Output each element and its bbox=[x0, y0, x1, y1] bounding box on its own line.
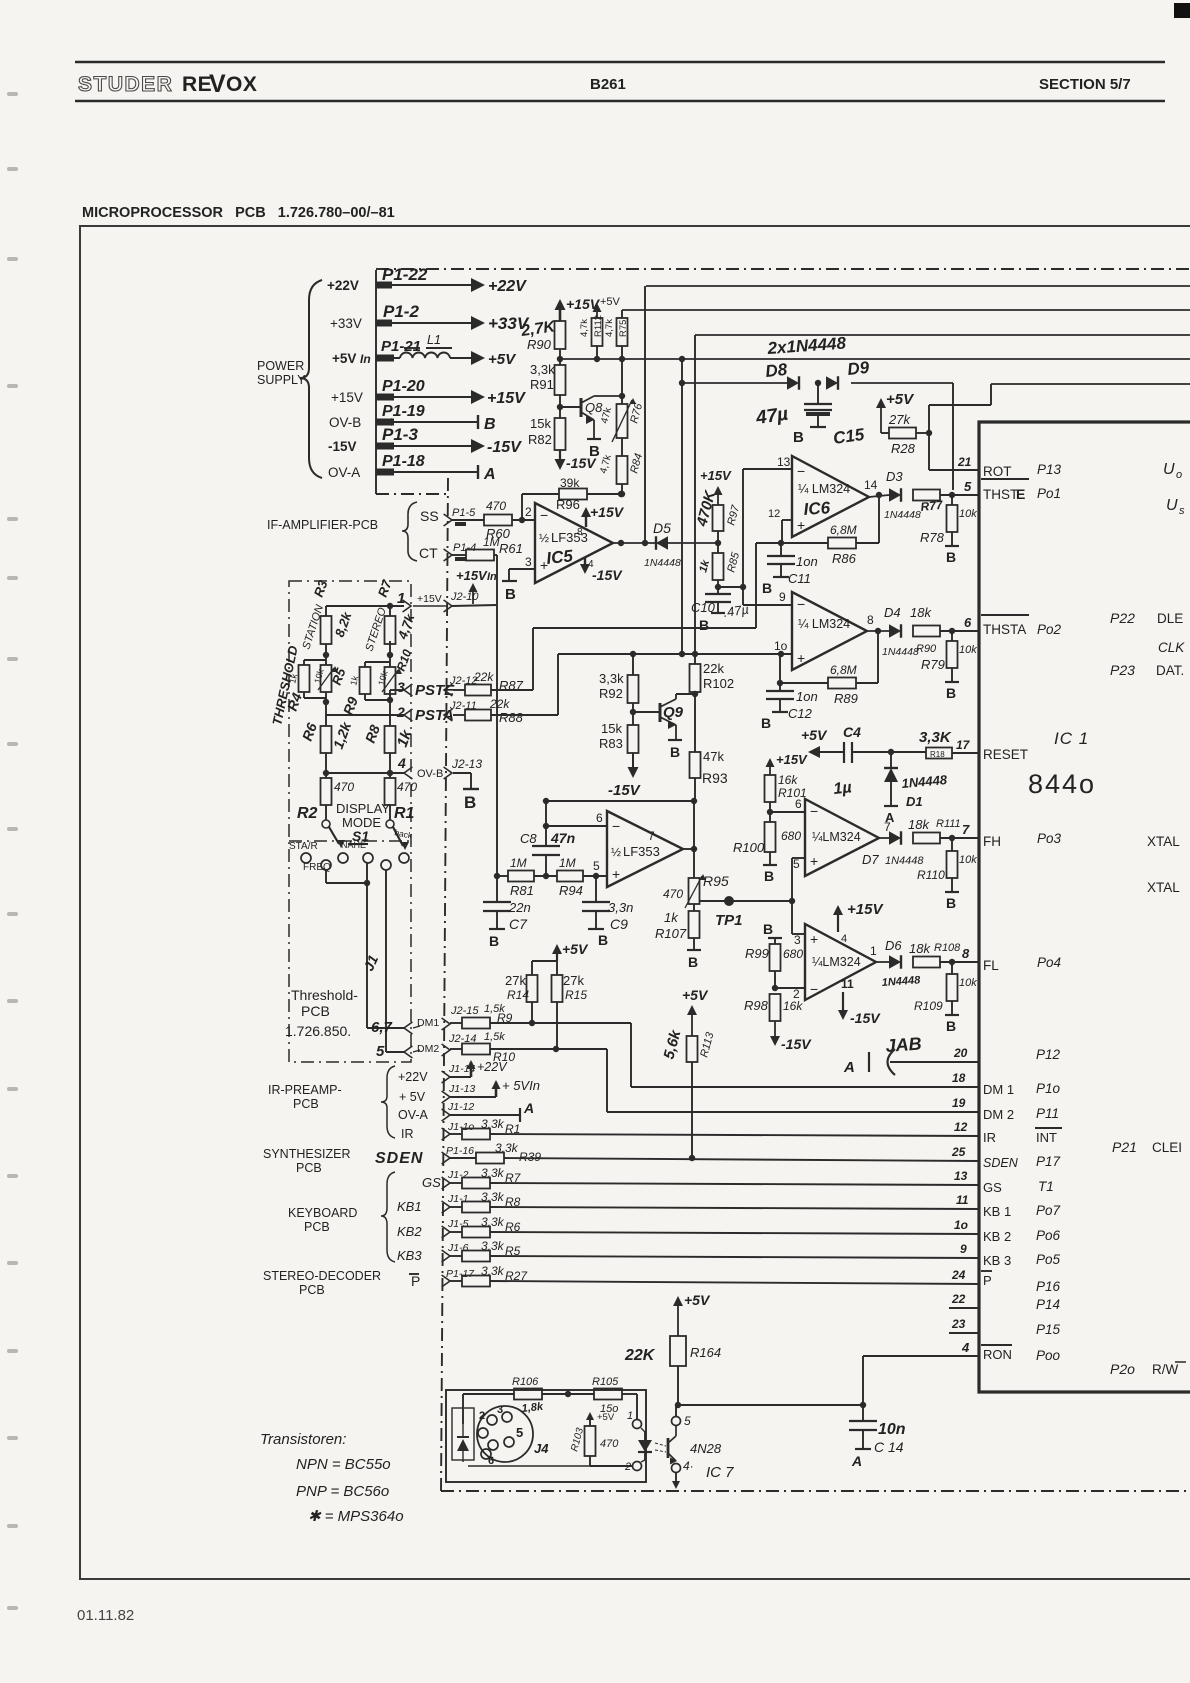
svg-text:22k: 22k bbox=[489, 697, 510, 711]
terminal A C14 bbox=[851, 1449, 871, 1469]
wire KB1 to IC1 bbox=[490, 1207, 979, 1209]
svg-text:27k: 27k bbox=[563, 973, 584, 988]
svg-text:470: 470 bbox=[663, 887, 683, 901]
svg-text:P1-21: P1-21 bbox=[381, 338, 421, 355]
svg-text:Q9: Q9 bbox=[663, 704, 684, 721]
resistor R28 27k bbox=[881, 412, 916, 456]
svg-text:D7: D7 bbox=[862, 852, 879, 867]
svg-text:R78: R78 bbox=[920, 530, 945, 545]
wire pin3 FL to TP1 bbox=[792, 901, 805, 947]
wire IC5 output to D5 node bbox=[613, 540, 718, 546]
svg-text:J2-15: J2-15 bbox=[450, 1005, 479, 1017]
svg-text:P1-17: P1-17 bbox=[446, 1268, 475, 1280]
svg-text:−: − bbox=[612, 818, 620, 834]
wire pin9 stub bbox=[743, 590, 792, 605]
wire rail +15V/+5V y359 bbox=[560, 358, 1190, 360]
svg-text:+15V: +15V bbox=[417, 593, 442, 605]
svg-text:D8: D8 bbox=[764, 360, 788, 381]
svg-text:OX: OX bbox=[226, 73, 257, 96]
resistor R9t 1k bbox=[340, 667, 371, 717]
wire KB3 to IC1 bbox=[490, 1256, 979, 1258]
resistor R100 680 bbox=[733, 822, 801, 855]
diode D7 1N4448 bbox=[862, 831, 924, 867]
svg-text:KEYBOARD: KEYBOARD bbox=[288, 1206, 357, 1220]
arrow +5V C4 bbox=[801, 727, 843, 758]
svg-text:R93: R93 bbox=[702, 770, 728, 786]
svg-text:R79: R79 bbox=[921, 657, 945, 672]
resistor R77 bbox=[913, 490, 945, 514]
svg-text:24: 24 bbox=[951, 1268, 966, 1282]
svg-text:CLEI: CLEI bbox=[1152, 1140, 1182, 1155]
svg-text:+5V: +5V bbox=[600, 296, 621, 308]
svg-text:P11: P11 bbox=[1036, 1106, 1059, 1121]
svg-text:P1-3: P1-3 bbox=[382, 425, 418, 444]
terminal A bbox=[478, 465, 496, 483]
label POWER SUPPLY bbox=[257, 359, 306, 387]
svg-text:R92: R92 bbox=[599, 686, 623, 701]
pin 23 P15 bbox=[949, 1317, 1061, 1337]
wire pin10 labels bbox=[774, 639, 788, 653]
svg-text:C9: C9 bbox=[610, 916, 628, 932]
svg-text:4: 4 bbox=[397, 755, 406, 771]
svg-text:C12: C12 bbox=[788, 706, 813, 721]
svg-text:25: 25 bbox=[951, 1145, 966, 1159]
wire SS P1-5 bbox=[444, 507, 484, 526]
wire IC6 output bbox=[864, 478, 889, 498]
svg-text:4: 4 bbox=[961, 1340, 970, 1355]
svg-text:27k: 27k bbox=[505, 973, 526, 988]
svg-text:OV-A: OV-A bbox=[398, 1108, 429, 1122]
wire OV-B P1-19 bbox=[329, 403, 478, 430]
wire net from IC5 output to edge y286 bbox=[646, 285, 1190, 287]
svg-text:3,3k: 3,3k bbox=[530, 362, 555, 377]
wire KB2 to IC1 bbox=[490, 1232, 979, 1234]
arrow -15V below R98 bbox=[770, 1021, 812, 1052]
svg-text:THST: THST bbox=[983, 487, 1018, 502]
wire R28 to ROT bbox=[916, 384, 991, 470]
svg-text:P14: P14 bbox=[1036, 1297, 1060, 1312]
svg-text:11: 11 bbox=[841, 977, 854, 991]
wire J2-10 +15V bbox=[443, 600, 497, 612]
label IF-AMPLIFIER-PCB bbox=[267, 518, 378, 532]
brace IF amp bbox=[402, 502, 417, 561]
resistor R61 1M bbox=[466, 535, 523, 561]
wire P1-16 SDEN bbox=[442, 1141, 519, 1164]
resistor R1 470 bbox=[385, 773, 418, 822]
svg-text:PCB: PCB bbox=[299, 1283, 325, 1297]
svg-text:R1: R1 bbox=[394, 805, 415, 822]
drawing border frame bbox=[80, 226, 1190, 1579]
pin 11 KB1 bbox=[956, 1193, 1061, 1219]
svg-text:IR-PREAMP-: IR-PREAMP- bbox=[268, 1083, 342, 1097]
svg-text:PCB: PCB bbox=[304, 1220, 330, 1234]
wire threshold top rail bbox=[326, 603, 404, 609]
svg-text:R81: R81 bbox=[510, 883, 534, 898]
arrow +15V above R90 bbox=[555, 296, 601, 321]
ground B C12 bbox=[761, 712, 788, 731]
svg-text:+33V: +33V bbox=[330, 316, 362, 331]
resistor R98 16k bbox=[744, 994, 803, 1021]
label +15VIn J2-10 bbox=[450, 568, 497, 604]
svg-text:1k: 1k bbox=[664, 910, 679, 925]
svg-text:Poo: Poo bbox=[1036, 1348, 1061, 1363]
wire switch to DM2 bbox=[386, 870, 404, 1052]
opto-coupler IC7 4N28 bbox=[624, 1410, 734, 1481]
resistor R111 18k bbox=[908, 817, 961, 844]
svg-text:ROT: ROT bbox=[983, 464, 1012, 479]
label DISPLAY MODE S1 bbox=[336, 801, 390, 844]
svg-text:+5V: +5V bbox=[684, 1292, 711, 1308]
svg-text:U: U bbox=[1166, 497, 1178, 514]
label GS bbox=[422, 1175, 441, 1190]
wire pin12 stub bbox=[768, 508, 792, 546]
svg-text:−: − bbox=[810, 981, 818, 997]
resistor R86 6.8M bbox=[781, 494, 879, 566]
svg-text:5: 5 bbox=[793, 857, 800, 871]
wire pin6 LF353 bbox=[546, 811, 607, 826]
resistor R103 470 bbox=[569, 1412, 619, 1456]
resistor R8b 3.3k bbox=[462, 1195, 521, 1213]
svg-text:4,7k: 4,7k bbox=[604, 319, 615, 337]
svg-text:DLE: DLE bbox=[1157, 611, 1183, 626]
svg-text:11: 11 bbox=[956, 1193, 969, 1207]
svg-text:Po2: Po2 bbox=[1037, 622, 1062, 637]
label CT bbox=[419, 545, 438, 561]
resistor R1b 3.3k bbox=[462, 1122, 520, 1140]
svg-text:+22V: +22V bbox=[477, 1060, 508, 1074]
diode D4 1N4448 bbox=[882, 605, 919, 658]
svg-text:R28: R28 bbox=[891, 441, 916, 456]
svg-text:8: 8 bbox=[577, 527, 583, 538]
pin 1 to J2-10 +15V bbox=[397, 590, 443, 612]
svg-text:3: 3 bbox=[497, 1404, 503, 1416]
svg-text:PCB: PCB bbox=[296, 1161, 322, 1175]
label JAB bbox=[885, 1034, 922, 1056]
resistor R9 1.5k bbox=[462, 1011, 513, 1029]
svg-text:680: 680 bbox=[781, 829, 801, 843]
svg-text:B: B bbox=[761, 715, 771, 731]
capacitor C14 10n bbox=[849, 1405, 906, 1455]
arrow +22V out bbox=[460, 278, 527, 295]
svg-text:Po5: Po5 bbox=[1036, 1252, 1061, 1267]
wire DM2 to IC1 bbox=[490, 1046, 979, 1112]
svg-text:RE: RE bbox=[182, 73, 212, 96]
svg-text:IC6: IC6 bbox=[803, 498, 831, 519]
pin 21 ROT bbox=[957, 455, 1062, 479]
svg-text:R2: R2 bbox=[297, 805, 318, 822]
label Uo bbox=[1163, 461, 1182, 481]
svg-text:P21: P21 bbox=[1112, 1139, 1137, 1155]
svg-text:TP1: TP1 bbox=[715, 912, 743, 929]
svg-text:T1: T1 bbox=[1038, 1179, 1054, 1194]
arrow +5V R28 bbox=[876, 391, 915, 433]
label KB1 bbox=[397, 1199, 422, 1214]
svg-text:3,3k: 3,3k bbox=[599, 671, 624, 686]
svg-text:+5V: +5V bbox=[332, 351, 356, 366]
svg-text:STA/R: STA/R bbox=[289, 841, 318, 852]
wire L1 to arrow bbox=[450, 357, 472, 359]
brace IR preamp bbox=[381, 1066, 395, 1138]
svg-text:1: 1 bbox=[627, 1410, 633, 1422]
svg-text:6,7: 6,7 bbox=[371, 1019, 393, 1036]
resistor R81 1M bbox=[508, 856, 534, 898]
wire C4 to R18 bbox=[852, 749, 926, 755]
diode J4 bbox=[452, 1408, 474, 1462]
wire R61 down to C8 node bbox=[494, 555, 497, 876]
resistor R79 10k bbox=[921, 631, 977, 681]
svg-text:1on: 1on bbox=[796, 554, 818, 569]
svg-text:-15V: -15V bbox=[608, 782, 642, 799]
resistor R5b 3.3k bbox=[462, 1244, 521, 1262]
svg-text:22K: 22K bbox=[624, 1347, 656, 1364]
op-amp IC5 1/2 LF353 bbox=[535, 503, 613, 583]
svg-text:B: B bbox=[762, 580, 772, 596]
svg-text:SYNTHESIZER: SYNTHESIZER bbox=[263, 1147, 351, 1161]
svg-text:4N28: 4N28 bbox=[690, 1441, 722, 1456]
svg-text:22k: 22k bbox=[473, 670, 494, 684]
wire +22V P1-22 bbox=[327, 265, 460, 293]
pin 3 ground B bbox=[502, 555, 535, 603]
svg-text:P13: P13 bbox=[1037, 462, 1062, 477]
wire J1-12 OV-A bbox=[398, 1100, 534, 1122]
svg-text:4: 4 bbox=[841, 933, 847, 945]
switch S1 pole left bbox=[322, 805, 345, 848]
svg-text:J1-12: J1-12 bbox=[447, 1101, 474, 1113]
pin 5 THSTE bbox=[964, 479, 1061, 502]
svg-text:+: + bbox=[810, 853, 818, 869]
svg-text:P1-22: P1-22 bbox=[382, 265, 428, 284]
label STEREO rotated bbox=[363, 606, 389, 653]
wire PSTE to J2-12 bbox=[444, 670, 494, 696]
svg-text:21: 21 bbox=[957, 455, 972, 469]
node FL bbox=[940, 959, 979, 965]
capacitor C7 22n bbox=[483, 898, 531, 932]
svg-text:1,5k: 1,5k bbox=[484, 1031, 505, 1043]
svg-text:R98: R98 bbox=[744, 998, 769, 1013]
label P22 DLE bbox=[1110, 610, 1183, 626]
wire R105 to opto pin1 bbox=[622, 1394, 637, 1420]
svg-text:844o: 844o bbox=[1028, 769, 1096, 799]
svg-text:1N4448: 1N4448 bbox=[644, 557, 681, 569]
label Pbar bbox=[409, 1273, 420, 1289]
op-amp IC6b 1/4 LM324 bbox=[792, 592, 867, 670]
resistor R91 3.3k bbox=[530, 359, 566, 395]
ground B C7 bbox=[489, 929, 505, 949]
svg-text:SDEN: SDEN bbox=[983, 1156, 1019, 1170]
svg-text:8: 8 bbox=[867, 613, 874, 627]
wire FL output bbox=[870, 944, 889, 962]
resistor R102 22k bbox=[690, 335, 735, 697]
svg-text:KB1: KB1 bbox=[397, 1199, 422, 1214]
resistor R85 1k bbox=[697, 550, 742, 580]
svg-text:B: B bbox=[670, 744, 680, 760]
wire PSTA threshold net y334 bbox=[695, 334, 1190, 336]
svg-text:+15V: +15V bbox=[456, 568, 488, 583]
diode D5 1N4448 bbox=[644, 520, 681, 569]
resistor R27 3.3k bbox=[462, 1269, 528, 1287]
svg-text:DISPLAY: DISPLAY bbox=[336, 801, 390, 816]
svg-text:470: 470 bbox=[486, 499, 506, 513]
svg-text:KB 2: KB 2 bbox=[983, 1229, 1011, 1244]
svg-text:R102: R102 bbox=[703, 676, 734, 691]
pin 8 FL bbox=[962, 946, 1061, 973]
wire PSTE run to IC6 pin12 bbox=[491, 543, 781, 690]
wire R113 to SDEN bbox=[689, 1062, 695, 1161]
svg-text:P: P bbox=[411, 1273, 420, 1289]
label CLK bbox=[1158, 640, 1185, 655]
label 8440 bbox=[1028, 769, 1096, 799]
svg-text:D3: D3 bbox=[886, 469, 903, 484]
svg-text:1N4448: 1N4448 bbox=[884, 509, 921, 521]
svg-text:+: + bbox=[810, 931, 818, 947]
svg-text:3,3n: 3,3n bbox=[608, 900, 633, 915]
ground A opto pin4 bbox=[672, 1473, 680, 1489]
svg-text:R18: R18 bbox=[930, 750, 945, 759]
svg-text:R86: R86 bbox=[832, 551, 857, 566]
label Transistoren bbox=[260, 1431, 346, 1448]
svg-text:3: 3 bbox=[525, 555, 532, 569]
wire R60 to pin2 bbox=[512, 505, 535, 523]
svg-text:P1-20: P1-20 bbox=[382, 378, 425, 395]
drawing title MICROPROCESSOR PCB bbox=[82, 205, 395, 221]
svg-text:L1: L1 bbox=[427, 333, 441, 347]
resistor R7b 3.3k bbox=[462, 1171, 522, 1189]
arrow +5V R113 bbox=[682, 987, 709, 1036]
svg-text:R108: R108 bbox=[934, 942, 961, 954]
svg-text:−: − bbox=[797, 596, 805, 612]
svg-text:J1-1: J1-1 bbox=[447, 1193, 468, 1205]
power bus vertical bbox=[375, 270, 377, 494]
svg-text:B: B bbox=[793, 429, 804, 446]
svg-text:R90: R90 bbox=[916, 643, 937, 655]
resistor R94 1M bbox=[557, 856, 583, 898]
svg-text:7: 7 bbox=[648, 829, 655, 843]
resistor R99 680 bbox=[745, 938, 803, 971]
svg-text:XTAL: XTAL bbox=[1147, 880, 1180, 895]
svg-text:R111: R111 bbox=[936, 818, 961, 830]
wire DM2 J2-14 bbox=[413, 1031, 505, 1056]
capacitor C4 1u bbox=[833, 724, 861, 798]
op-amp IC6 1/4 LM324 bbox=[792, 456, 869, 537]
test point TP1 bbox=[699, 896, 795, 929]
svg-text:INT: INT bbox=[1036, 1130, 1057, 1145]
svg-text:4,7k: 4,7k bbox=[579, 319, 590, 337]
svg-text:+22V: +22V bbox=[327, 278, 359, 293]
pin 19 DM2 bbox=[952, 1096, 1059, 1122]
label IR-PREAMP-PCB bbox=[268, 1083, 342, 1111]
svg-text:22n: 22n bbox=[508, 900, 531, 915]
arrow -15V out bbox=[455, 439, 522, 456]
svg-text:+ 5VIn: + 5VIn bbox=[502, 1078, 540, 1093]
svg-text:-15V: -15V bbox=[592, 567, 623, 583]
capacitor JAB on P12 bbox=[843, 1049, 979, 1076]
wire +5V net y310 bbox=[622, 309, 1190, 311]
arrow +5V out bbox=[471, 351, 517, 368]
svg-text:R83: R83 bbox=[599, 736, 623, 751]
svg-text:PNP = BC56o: PNP = BC56o bbox=[296, 1483, 389, 1500]
svg-text:13: 13 bbox=[777, 455, 791, 469]
capacitor C11 1on bbox=[767, 543, 818, 586]
svg-text:-15V: -15V bbox=[487, 439, 522, 456]
wire J1-14 +22V bbox=[398, 1060, 508, 1084]
svg-text:IF-AMPLIFIER-PCB: IF-AMPLIFIER-PCB bbox=[267, 518, 378, 532]
svg-text:3: 3 bbox=[397, 679, 405, 695]
svg-text:RON: RON bbox=[983, 1347, 1012, 1362]
svg-text:1: 1 bbox=[397, 590, 405, 607]
resistor R89 6.8M feedback bbox=[777, 631, 878, 706]
svg-text:R88: R88 bbox=[499, 710, 524, 725]
ground B R79 bbox=[945, 682, 959, 701]
svg-text:R94: R94 bbox=[559, 883, 583, 898]
svg-text:C 14: C 14 bbox=[874, 1439, 904, 1455]
svg-text:R61: R61 bbox=[499, 541, 523, 556]
svg-text:16k: 16k bbox=[778, 773, 798, 787]
svg-text:OV-A: OV-A bbox=[328, 465, 360, 480]
wire pin13 net bbox=[743, 455, 792, 605]
svg-text:R91: R91 bbox=[530, 377, 554, 392]
svg-text:17: 17 bbox=[956, 738, 971, 752]
arrow +33V out bbox=[455, 314, 530, 333]
svg-text:+: + bbox=[797, 517, 805, 533]
node R3 bottom bbox=[304, 644, 329, 665]
svg-text:+5V: +5V bbox=[801, 727, 828, 743]
svg-text:D5: D5 bbox=[653, 520, 671, 536]
resistor R110 10k bbox=[917, 838, 977, 891]
threshold box internal dashed divider bbox=[289, 840, 411, 842]
node FH bbox=[940, 835, 979, 841]
svg-text:KB 1: KB 1 bbox=[983, 1204, 1011, 1219]
svg-text:V: V bbox=[209, 70, 226, 98]
trimmer R95 470 bbox=[663, 849, 729, 908]
arrow +15V above R97 bbox=[700, 468, 732, 505]
svg-text:10n: 10n bbox=[878, 1421, 906, 1438]
svg-text:E: E bbox=[1016, 486, 1025, 502]
resistor R88 22k bbox=[465, 710, 524, 726]
wire rail to D8 node bbox=[679, 356, 685, 654]
svg-text:J2-10: J2-10 bbox=[450, 591, 479, 603]
resistor R10 1.5k bbox=[462, 1044, 515, 1065]
wire IR to IC1 bbox=[490, 1134, 979, 1136]
svg-text:B261: B261 bbox=[590, 76, 626, 93]
pin 4 OV-B wire bbox=[323, 753, 413, 779]
svg-text:CT: CT bbox=[419, 545, 438, 561]
resistor R18 3.3K bbox=[919, 729, 952, 759]
svg-text:DM2: DM2 bbox=[417, 1043, 439, 1055]
svg-text:R101: R101 bbox=[778, 786, 807, 800]
pin 9 KB3 bbox=[960, 1242, 1061, 1268]
svg-text:680: 680 bbox=[783, 947, 803, 961]
wire R103 bottom bbox=[468, 1456, 633, 1466]
svg-text:FL: FL bbox=[983, 958, 999, 973]
resistor R112 4.7k bbox=[579, 315, 604, 362]
pin 5 DM2 bbox=[376, 1043, 412, 1060]
svg-text:+15V: +15V bbox=[590, 504, 625, 520]
wire R85 bottom node bbox=[715, 580, 746, 594]
wire J1-2 GS bbox=[442, 1166, 505, 1189]
svg-text:12: 12 bbox=[768, 508, 780, 520]
svg-text:Po6: Po6 bbox=[1036, 1228, 1061, 1243]
svg-text:SUPPLY: SUPPLY bbox=[257, 373, 306, 387]
arrow +5V above R14 R15 bbox=[532, 941, 589, 961]
svg-text:23: 23 bbox=[951, 1317, 966, 1331]
svg-text:¼ LM324: ¼ LM324 bbox=[798, 482, 850, 496]
svg-text:39k: 39k bbox=[560, 476, 580, 490]
wire opto pin5 up bbox=[675, 1405, 677, 1416]
label P2o R/W bbox=[1110, 1361, 1186, 1377]
resistor R75 4.7k bbox=[604, 318, 629, 362]
node R7 bottom bbox=[365, 641, 393, 667]
svg-text:J1-6: J1-6 bbox=[447, 1242, 469, 1254]
